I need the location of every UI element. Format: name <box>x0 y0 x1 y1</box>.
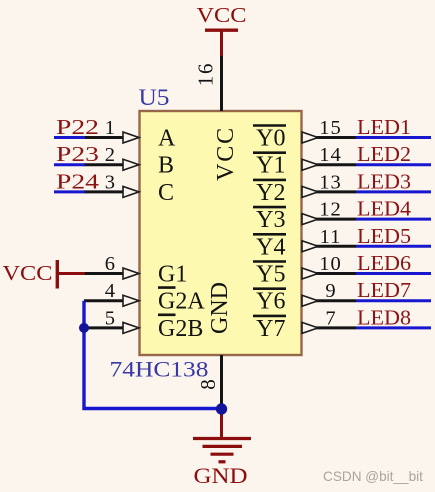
svg-text:LED6: LED6 <box>357 251 411 275</box>
svg-text:GND: GND <box>207 282 233 334</box>
svg-text:15: 15 <box>319 117 342 139</box>
svg-text:P23: P23 <box>56 142 99 166</box>
svg-text:14: 14 <box>319 144 342 166</box>
svg-text:1: 1 <box>105 117 115 139</box>
svg-text:LED8: LED8 <box>357 305 411 329</box>
svg-text:13: 13 <box>319 171 342 193</box>
svg-text:Y2: Y2 <box>256 180 285 206</box>
svg-text:74HC138: 74HC138 <box>110 357 209 382</box>
svg-text:Y1: Y1 <box>256 153 285 179</box>
svg-text:2: 2 <box>105 144 115 166</box>
svg-text:LED5: LED5 <box>357 224 411 248</box>
svg-text:VCC: VCC <box>3 261 53 285</box>
svg-text:LED4: LED4 <box>357 197 412 221</box>
svg-text:11: 11 <box>320 226 342 248</box>
svg-text:P22: P22 <box>56 115 99 139</box>
svg-text:8: 8 <box>196 379 220 390</box>
svg-text:10: 10 <box>319 253 342 275</box>
svg-text:P24: P24 <box>56 169 99 193</box>
svg-text:12: 12 <box>319 199 342 221</box>
svg-text:7: 7 <box>325 307 335 329</box>
svg-text:4: 4 <box>105 280 115 302</box>
svg-text:LED3: LED3 <box>357 169 411 193</box>
svg-text:U5: U5 <box>139 85 170 110</box>
svg-text:G2A: G2A <box>158 289 205 315</box>
svg-text:Y0: Y0 <box>256 126 285 152</box>
svg-text:Y7: Y7 <box>256 316 285 342</box>
svg-text:LED1: LED1 <box>357 115 411 139</box>
svg-text:A: A <box>158 126 176 152</box>
svg-text:VCC: VCC <box>213 126 239 181</box>
svg-text:Y5: Y5 <box>256 262 285 288</box>
svg-text:G2B: G2B <box>158 316 203 342</box>
svg-text:VCC: VCC <box>197 3 247 27</box>
svg-text:3: 3 <box>105 171 115 193</box>
svg-text:9: 9 <box>325 280 335 302</box>
svg-text:5: 5 <box>105 307 115 329</box>
svg-text:Y6: Y6 <box>256 289 285 315</box>
svg-text:B: B <box>158 153 174 179</box>
svg-text:LED2: LED2 <box>357 142 411 166</box>
svg-text:C: C <box>158 180 174 206</box>
svg-text:16: 16 <box>194 62 218 87</box>
svg-text:LED7: LED7 <box>357 278 411 302</box>
svg-text:6: 6 <box>105 253 115 275</box>
svg-text:CSDN @bit__bit: CSDN @bit__bit <box>323 469 423 484</box>
svg-text:Y4: Y4 <box>256 234 285 260</box>
svg-text:GND: GND <box>194 463 248 488</box>
svg-text:G1: G1 <box>158 262 187 288</box>
svg-text:Y3: Y3 <box>256 207 285 233</box>
